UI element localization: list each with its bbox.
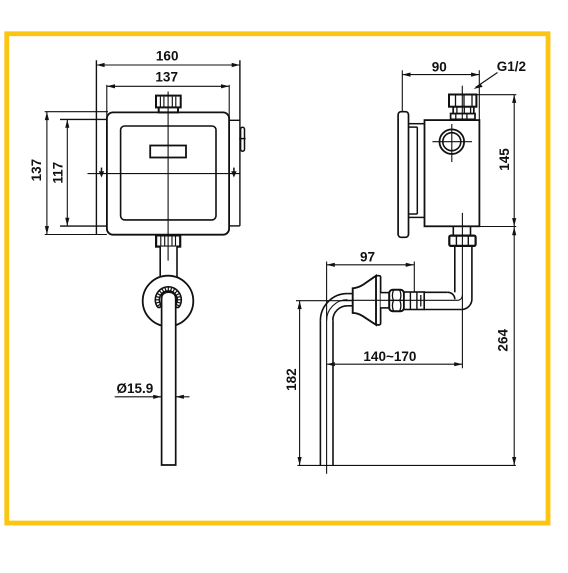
svg-text:117: 117: [51, 162, 66, 184]
svg-text:137: 137: [155, 70, 178, 85]
svg-text:137: 137: [29, 159, 44, 182]
svg-text:G1/2: G1/2: [497, 59, 526, 74]
svg-text:264: 264: [496, 329, 511, 352]
svg-text:145: 145: [497, 148, 512, 171]
svg-text:97: 97: [360, 249, 375, 264]
svg-text:Ø15.9: Ø15.9: [117, 381, 154, 396]
svg-text:90: 90: [432, 60, 447, 75]
svg-text:140~170: 140~170: [363, 349, 416, 364]
svg-text:160: 160: [156, 48, 179, 63]
svg-text:182: 182: [284, 368, 299, 391]
